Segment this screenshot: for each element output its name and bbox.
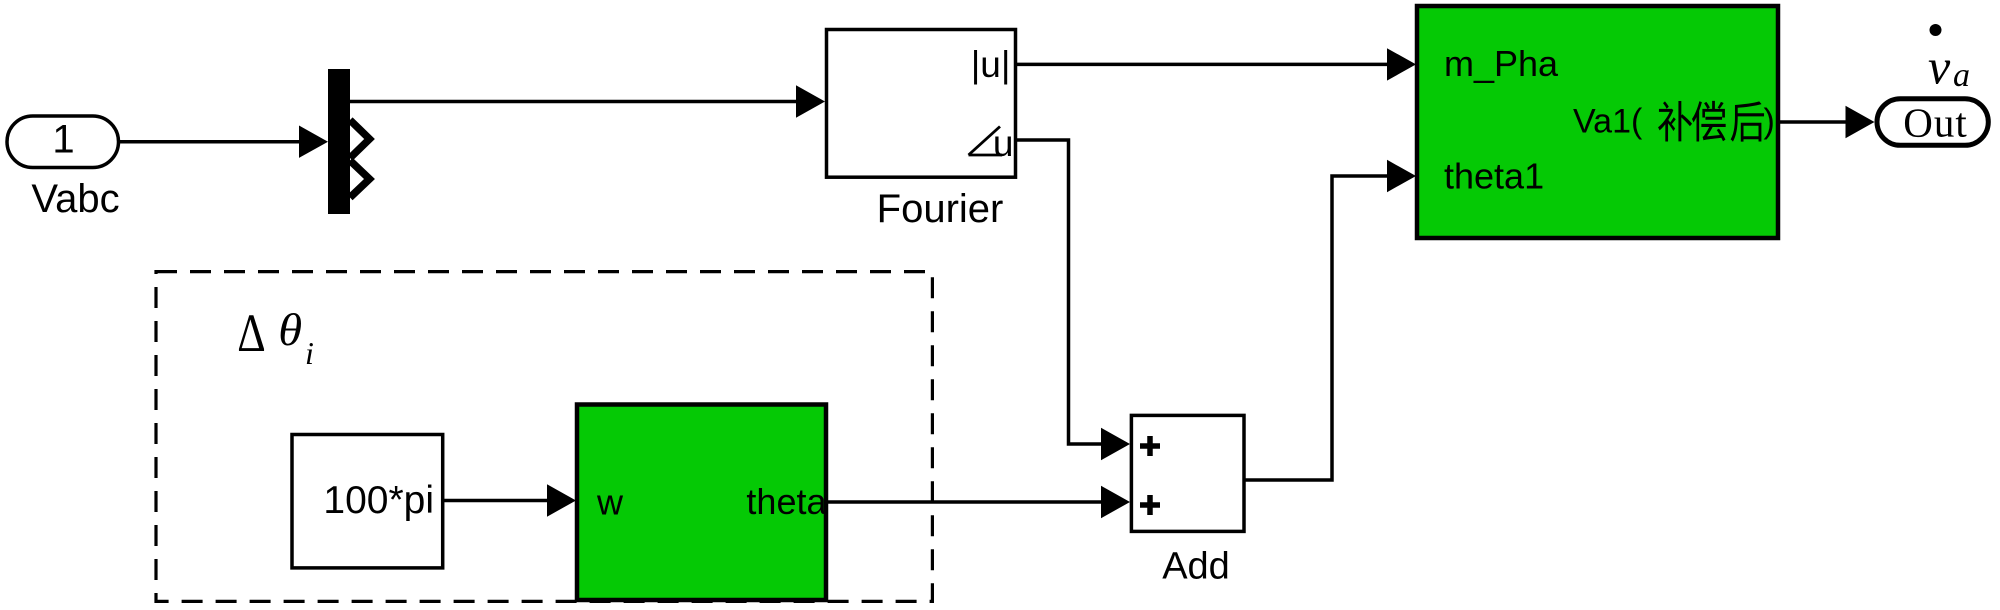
svg-text:i: i [305, 335, 314, 371]
svg-text:theta: theta [746, 481, 827, 522]
svg-text:1: 1 [52, 118, 74, 162]
hanzi chang [1692, 101, 1726, 142]
inport block 1 (Vabc) [7, 116, 119, 168]
svg-text:m_Pha: m_Pha [1444, 43, 1559, 84]
dashed subsystem box [156, 272, 932, 602]
outport block Out [1877, 99, 1988, 146]
block w/theta subsystem (green) [577, 405, 827, 601]
svg-text:u: u [993, 123, 1014, 164]
wire |u| to m_Pha [1017, 48, 1416, 80]
label Delta theta i [237, 303, 314, 371]
demux block [328, 69, 370, 214]
angle symbol [969, 127, 1001, 156]
svg-text:Δ: Δ [237, 303, 265, 363]
wire Vabc to demux [119, 126, 329, 158]
wire 100*pi to w [444, 484, 576, 516]
wire angle-u to Add input 1 [1017, 140, 1130, 460]
svg-text:): ) [1764, 102, 1775, 140]
svg-text:w: w [596, 482, 624, 523]
wire Add to theta1 [1244, 160, 1416, 480]
svg-text:Va1(: Va1( [1573, 102, 1643, 140]
wire theta to Add input 2 [826, 486, 1130, 518]
wire demux to Fourier [350, 85, 825, 117]
wire Va1 to Out [1778, 106, 1875, 138]
svg-text:Add: Add [1162, 546, 1230, 588]
svg-text:Vabc: Vabc [31, 177, 119, 221]
svg-text:Out: Out [1903, 100, 1968, 146]
annotation v-dot-a [1928, 24, 1970, 95]
constant block 100*pi [292, 435, 443, 568]
svg-text:100*pi: 100*pi [323, 479, 434, 522]
svg-text:theta1: theta1 [1444, 156, 1544, 197]
svg-text:|u|: |u| [971, 44, 1011, 85]
block Add [1131, 415, 1244, 531]
svg-text:a: a [1953, 57, 1970, 94]
svg-text:θ: θ [278, 305, 302, 355]
block m_Pha subsystem (green) [1417, 6, 1778, 238]
svg-text:Fourier: Fourier [877, 187, 1004, 231]
hanzi hou [1731, 101, 1764, 141]
block Fourier [827, 30, 1016, 178]
hanzi bu [1658, 101, 1692, 141]
svg-text:v: v [1928, 39, 1951, 95]
